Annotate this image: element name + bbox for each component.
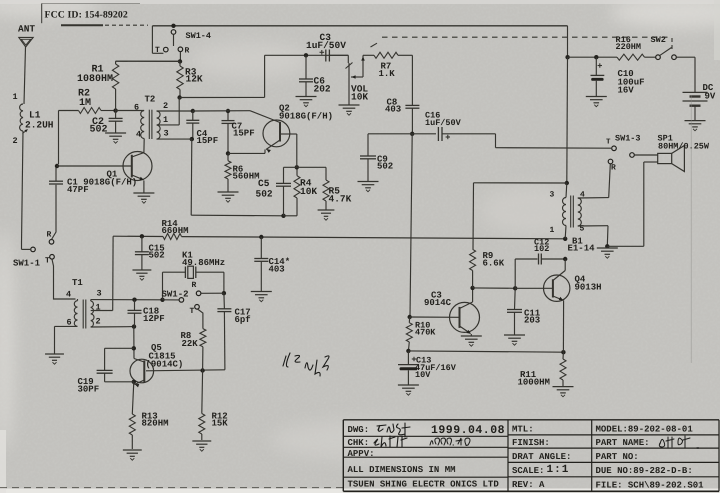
- svg-text:1: 1: [96, 303, 101, 313]
- svg-text:DWG:: DWG:: [348, 425, 370, 435]
- svg-text:T1: T1: [72, 278, 83, 288]
- svg-text:SW1-1: SW1-1: [13, 259, 41, 269]
- svg-text:R: R: [611, 164, 616, 173]
- svg-text:502: 502: [149, 251, 165, 261]
- svg-text:403: 403: [269, 265, 285, 275]
- svg-text:ALL DIMENSIONS IN MM: ALL DIMENSIONS IN MM: [348, 465, 456, 475]
- svg-text:820HM: 820HM: [142, 419, 169, 429]
- svg-text:220HM: 220HM: [616, 42, 642, 52]
- svg-text:R: R: [192, 281, 197, 290]
- svg-text:4.7K: 4.7K: [329, 194, 352, 205]
- svg-text:1.K: 1.K: [379, 69, 396, 79]
- svg-text:SW1-2: SW1-2: [162, 290, 189, 300]
- svg-text:4: 4: [580, 191, 585, 200]
- svg-text:30PF: 30PF: [78, 385, 100, 395]
- svg-text:15PF: 15PF: [197, 136, 219, 146]
- svg-text:T2: T2: [145, 95, 156, 105]
- svg-text:49.86MHz: 49.86MHz: [182, 258, 225, 268]
- svg-text:102: 102: [534, 244, 549, 254]
- svg-text:502: 502: [90, 125, 108, 136]
- svg-text:12PF: 12PF: [143, 314, 165, 324]
- svg-text:203: 203: [524, 316, 540, 326]
- svg-text:3: 3: [97, 289, 102, 299]
- svg-text:1uF/50V: 1uF/50V: [306, 40, 346, 51]
- svg-text:FCC ID: 154-89202: FCC ID: 154-89202: [45, 10, 128, 21]
- svg-text:403: 403: [385, 105, 401, 115]
- svg-text:6: 6: [134, 103, 139, 113]
- svg-text:470K: 470K: [415, 328, 436, 338]
- svg-text:10K: 10K: [351, 92, 368, 103]
- svg-text:ANT: ANT: [18, 24, 35, 35]
- svg-text:3: 3: [550, 191, 555, 200]
- svg-text:R: R: [47, 231, 52, 240]
- svg-text:4: 4: [136, 130, 141, 140]
- svg-text:1000HM: 1000HM: [518, 378, 550, 388]
- svg-text:22K: 22K: [182, 339, 199, 349]
- svg-text:202: 202: [314, 84, 331, 95]
- svg-text:1:1: 1:1: [547, 464, 570, 476]
- svg-text:16V: 16V: [618, 86, 635, 96]
- svg-text:4: 4: [66, 290, 71, 300]
- svg-text:T: T: [190, 307, 195, 316]
- svg-text:9013H: 9013H: [575, 283, 602, 293]
- svg-text:6: 6: [67, 318, 72, 328]
- svg-text:1999.04.08: 1999.04.08: [431, 424, 505, 437]
- svg-text:DUE NO:89-282-D-B:: DUE NO:89-282-D-B:: [596, 466, 693, 476]
- svg-text:SW2: SW2: [651, 35, 666, 45]
- svg-text:9V: 9V: [705, 92, 716, 102]
- svg-text:FINISH:: FINISH:: [512, 438, 550, 448]
- svg-text:FILE: SCH\89-202.S01: FILE: SCH\89-202.S01: [596, 481, 705, 491]
- svg-text:R: R: [185, 47, 190, 56]
- svg-text:1uF/50V: 1uF/50V: [425, 118, 462, 128]
- svg-text:TSUEN SHING ELECTR ONICS LTD: TSUEN SHING ELECTR ONICS LTD: [348, 480, 500, 490]
- svg-text:MODEL:89-202-08-01: MODEL:89-202-08-01: [596, 425, 694, 435]
- svg-text:2: 2: [13, 136, 18, 146]
- svg-text:15PF: 15PF: [233, 129, 255, 139]
- svg-text:2.2UH: 2.2UH: [25, 120, 54, 131]
- svg-text:PART NAME:: PART NAME:: [596, 438, 650, 448]
- svg-text:6pf: 6pf: [235, 315, 251, 325]
- svg-text:80HM/0.25W: 80HM/0.25W: [658, 142, 710, 152]
- svg-text:2: 2: [96, 317, 101, 327]
- svg-text:SW1-4: SW1-4: [186, 31, 212, 41]
- svg-text:1M: 1M: [79, 98, 91, 109]
- svg-text:REV: A: REV: A: [512, 480, 545, 490]
- svg-text:3: 3: [164, 129, 169, 139]
- svg-text:CHK:: CHK:: [348, 438, 370, 448]
- svg-text:5: 5: [580, 225, 585, 234]
- svg-text:502: 502: [256, 189, 273, 200]
- svg-text:9014C: 9014C: [424, 298, 452, 308]
- svg-text:15K: 15K: [212, 419, 229, 429]
- svg-text:T: T: [155, 46, 160, 55]
- svg-text:9018G(F/H): 9018G(F/H): [279, 112, 333, 122]
- svg-text:1: 1: [163, 115, 168, 125]
- svg-text:560HM: 560HM: [233, 172, 260, 182]
- svg-text:SCALE:: SCALE:: [512, 466, 544, 476]
- svg-text:47PF: 47PF: [67, 185, 89, 195]
- svg-text:(9014C): (9014C): [146, 360, 184, 370]
- svg-text:6.6K: 6.6K: [483, 259, 505, 269]
- svg-text:E1-14: E1-14: [568, 244, 596, 254]
- svg-text:MTL:: MTL:: [512, 425, 534, 435]
- svg-text:1: 1: [550, 226, 555, 235]
- svg-text:DRAT ANGLE:: DRAT ANGLE:: [512, 452, 571, 462]
- svg-text:10K: 10K: [300, 186, 317, 197]
- svg-text:T: T: [45, 257, 50, 266]
- svg-text:SW1-3: SW1-3: [615, 134, 641, 144]
- svg-text:12K: 12K: [186, 74, 203, 85]
- svg-text:502: 502: [377, 162, 393, 172]
- svg-text:C5: C5: [258, 178, 270, 189]
- svg-text:10V: 10V: [415, 370, 431, 380]
- svg-text:660HM: 660HM: [162, 226, 189, 236]
- svg-text:T: T: [606, 139, 611, 147]
- svg-text:PART NO:: PART NO:: [596, 452, 639, 462]
- svg-text:1: 1: [13, 92, 18, 102]
- svg-text:2: 2: [163, 101, 168, 111]
- svg-text:APPV:: APPV:: [348, 449, 375, 459]
- svg-text:1080HM: 1080HM: [77, 74, 113, 85]
